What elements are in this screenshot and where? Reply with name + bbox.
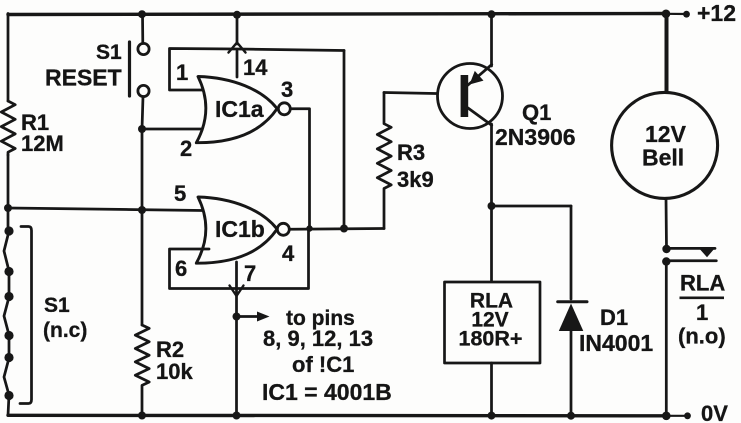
svg-text:R3: R3 <box>397 140 425 165</box>
node latch output junction <box>340 225 348 233</box>
label pin 1 <box>176 60 188 85</box>
wire bell bottom <box>665 198 668 249</box>
label 0V <box>701 401 728 423</box>
node collector junction <box>488 202 496 210</box>
node RLA rail junction <box>488 412 496 420</box>
wire S1 to pin2 and down <box>142 97 143 326</box>
diode D1 <box>558 206 587 416</box>
svg-text:RLA: RLA <box>680 271 725 296</box>
svg-text:Q1: Q1 <box>522 100 551 125</box>
label IC1 = 4001B <box>262 379 392 405</box>
to-pins arrow <box>237 312 270 322</box>
label pin 5 <box>174 181 186 206</box>
relay coil RLA box <box>445 282 541 363</box>
wire bottom 0V rail <box>8 414 687 418</box>
svg-text:D1: D1 <box>600 305 628 330</box>
svg-text:(n.o): (n.o) <box>678 324 726 349</box>
wire RLA coil top <box>490 206 493 282</box>
node contact top junction <box>662 245 670 253</box>
op-amp gate IC1b NOR <box>196 197 289 263</box>
wire Q1 emitter to rail <box>490 14 493 66</box>
svg-text:1: 1 <box>696 300 708 325</box>
node Q1 rail junction <box>488 10 496 18</box>
node top rail S1 junction <box>138 10 146 18</box>
resistor R1 <box>1 101 15 155</box>
node pin14 rail junction <box>233 11 241 19</box>
svg-text:S1: S1 <box>44 294 70 317</box>
node pin2 junction <box>138 125 146 133</box>
switch S1 n.c chain <box>4 226 14 415</box>
label pin 14 <box>243 55 268 80</box>
svg-text:+12: +12 <box>697 0 736 26</box>
svg-text:4: 4 <box>282 241 295 266</box>
svg-text:0V: 0V <box>701 401 728 423</box>
svg-text:10k: 10k <box>156 359 193 384</box>
label pin 6 <box>175 256 187 281</box>
node pin7 rail junction <box>233 412 241 420</box>
svg-text:3k9: 3k9 <box>397 167 434 192</box>
wire contact to 0V <box>665 262 668 416</box>
wire collector to D1 <box>492 205 572 208</box>
pin14 chevron arrow up <box>229 43 246 53</box>
svg-text:IN4001: IN4001 <box>579 330 653 356</box>
label pin 7 <box>244 261 256 286</box>
wire pin2 horizontal <box>142 128 208 131</box>
svg-text:6: 6 <box>175 256 187 281</box>
svg-text:2: 2 <box>180 136 192 161</box>
svg-text:8, 9, 12, 13: 8, 9, 12, 13 <box>263 326 373 351</box>
bell 12V <box>612 92 718 198</box>
svg-text:3: 3 <box>281 77 293 102</box>
bracket for S1 chain <box>20 227 32 404</box>
pin7 chevron arrow down <box>230 286 244 297</box>
node pin7 arrow junction <box>233 313 241 321</box>
svg-text:RESET: RESET <box>45 65 122 91</box>
label R2 10k <box>156 337 193 384</box>
label pin 3 <box>281 77 293 102</box>
label 12V Bell <box>642 121 687 171</box>
node contact rail junction <box>662 412 671 421</box>
transistor Q1 2N3906 <box>438 64 503 129</box>
label +12 <box>697 0 736 26</box>
svg-text:IC1b: IC1b <box>215 216 265 242</box>
svg-text:5: 5 <box>174 181 186 206</box>
svg-text:180R+: 180R+ <box>459 327 523 351</box>
svg-text:S1: S1 <box>96 41 122 64</box>
node pin3 to output line <box>306 225 312 231</box>
resistor R3 <box>377 93 391 229</box>
node D1 rail junction <box>567 412 575 420</box>
label Q1 2N3906 <box>495 100 576 150</box>
switch S1 RESET <box>130 42 150 97</box>
label IC1a <box>215 96 264 122</box>
node R2 bottom rail junction <box>138 412 146 420</box>
wire bell top <box>665 14 669 93</box>
wire S1 reset drop from +12 <box>141 14 144 44</box>
svg-text:7: 7 <box>244 261 256 286</box>
wire R3 to Q1 base <box>384 93 461 95</box>
svg-text:1: 1 <box>176 60 188 85</box>
svg-text:of !C1: of !C1 <box>292 352 354 377</box>
wire pin5 horizontal <box>8 208 203 211</box>
node 0V terminal <box>684 412 691 419</box>
wire pin7 down <box>235 262 238 416</box>
wire latch right vertical <box>343 51 346 229</box>
label to pins <box>263 307 373 377</box>
svg-text:14: 14 <box>243 55 268 80</box>
svg-text:Bell: Bell <box>642 145 684 171</box>
wire pin6 loop <box>170 229 309 289</box>
label S1 n.c <box>43 294 87 342</box>
svg-text:(n.c): (n.c) <box>43 319 87 342</box>
wire RLA coil bottom <box>490 363 493 416</box>
svg-text:2N3906: 2N3906 <box>495 124 576 150</box>
wire left rail mid <box>7 155 10 231</box>
wire pin4 output line to R3 <box>290 227 385 231</box>
wire top +12 rail <box>8 14 686 15</box>
label RLA 12V 180R+ <box>459 290 523 351</box>
node +12 terminal <box>683 11 690 18</box>
label S1 RESET <box>45 41 122 91</box>
svg-text:IC1 = 4001B: IC1 = 4001B <box>262 379 392 405</box>
resistor R2 <box>135 325 149 416</box>
node pin5 junction mid <box>138 206 146 214</box>
label pin 4 <box>282 241 295 266</box>
wire pin3 output <box>291 109 310 229</box>
relay contact RLA1 <box>662 248 716 265</box>
wire Q1 collector down <box>490 124 493 206</box>
wire pin1 loop <box>170 49 345 91</box>
label RLA 1 n.o <box>678 271 726 349</box>
label pin 2 <box>180 136 192 161</box>
label R1 12M <box>21 110 64 156</box>
wire left rail upper <box>7 14 10 102</box>
svg-text:12V: 12V <box>645 121 687 147</box>
wire pin14 drop from rail <box>236 14 239 77</box>
node bell rail junction <box>662 10 671 19</box>
label D1 IN4001 <box>579 305 653 356</box>
op-amp gate IC1a NOR <box>196 77 290 143</box>
svg-text:12M: 12M <box>21 131 64 156</box>
node left pin5 junction <box>4 204 12 212</box>
label IC1b <box>215 216 265 242</box>
label R3 3k9 <box>397 140 434 192</box>
svg-text:IC1a: IC1a <box>215 96 264 122</box>
